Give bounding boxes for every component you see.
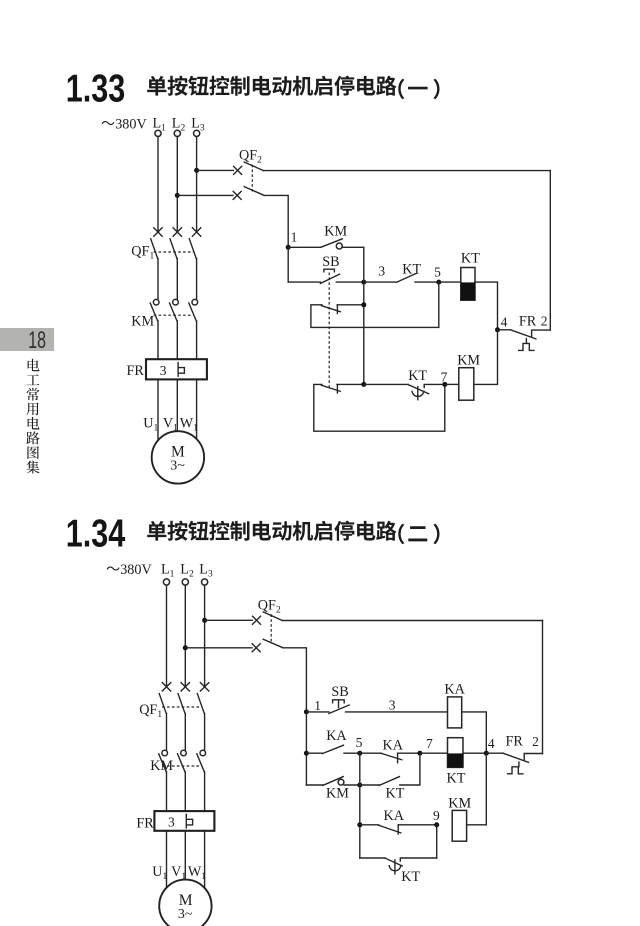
svg-text:1: 1	[291, 230, 298, 245]
svg-text:KT: KT	[461, 251, 480, 267]
breaker QF1 pole 2 (2)	[178, 683, 190, 714]
svg-text:4: 4	[488, 736, 495, 751]
svg-text:5: 5	[434, 265, 441, 280]
wire node7 to KT coil (2)	[420, 752, 448, 754]
thermal relay FR heater symbol (2)	[186, 814, 192, 828]
node on L2 to QF2	[175, 193, 180, 198]
breaker QF2 upper pole	[234, 162, 264, 174]
contactor KM main contact 1	[150, 299, 159, 321]
svg-text:3: 3	[160, 363, 167, 378]
contactor KM linkage (2)	[162, 765, 200, 767]
thermal relay FR NC contact	[498, 330, 551, 351]
node row3 (2)	[357, 822, 362, 827]
breaker QF1 pole 2	[170, 228, 182, 259]
wire QF1 outputs down to KM (2)	[167, 713, 205, 750]
svg-text:4: 4	[501, 315, 508, 330]
svg-text:KM: KM	[324, 224, 347, 240]
wire KT coil to corner down to node4	[475, 282, 498, 330]
svg-text:KM: KM	[457, 353, 480, 369]
node 7 (2)	[417, 751, 422, 756]
wire KM coil to node4 riser (2)	[467, 753, 487, 825]
wire phase L2 down to QF1	[176, 137, 178, 232]
breaker QF1 pole 3	[189, 228, 201, 259]
svg-text:KM: KM	[131, 314, 154, 330]
wire KM coil to node4 riser	[474, 330, 498, 385]
breaker QF1 pole 3 (2)	[197, 683, 209, 714]
breaker QF1 pole 1 (2)	[159, 683, 171, 714]
terminal L3	[191, 116, 205, 137]
wire KM outputs down to FR	[158, 321, 197, 359]
relay KA NO contact row3 (2)	[360, 825, 437, 834]
time relay KT NO contact row2b (2)	[360, 753, 420, 785]
wire KT coil to node 4 (2)	[463, 752, 486, 754]
contactor KM linkage	[154, 314, 193, 316]
node on riser at middle contact	[361, 302, 366, 307]
bottom loop with KT delayed contact (2)	[360, 857, 385, 859]
svg-text:FR: FR	[127, 363, 145, 379]
node on L3 to QF2 (2)	[202, 618, 207, 623]
time relay KT delayed NC contact	[408, 384, 445, 399]
wire riser node A corner	[363, 247, 365, 384]
node 3	[361, 280, 366, 285]
wire phase L3 down to QF1	[196, 137, 198, 232]
wire QF2 top output to right rail (2)	[282, 620, 542, 622]
wire to SB	[288, 281, 320, 283]
svg-text:2: 2	[532, 734, 539, 749]
svg-text:KM: KM	[150, 758, 173, 774]
wire node1 down to SB row	[287, 247, 289, 282]
svg-text:KT: KT	[401, 869, 420, 885]
node 7	[442, 382, 447, 387]
wire right rail down to FR contact (2)	[542, 621, 544, 754]
svg-text:3~: 3~	[170, 459, 185, 474]
time relay KT NO contact	[364, 273, 439, 282]
contactor KM main contact 1 (2)	[159, 750, 168, 772]
pushbutton SB NO contact (2)	[306, 705, 447, 714]
wire KA coil to node4 riser (2)	[462, 712, 487, 753]
svg-text:FR: FR	[506, 734, 524, 750]
wire L2 to QF2 lower contact (2)	[185, 647, 252, 649]
wire node1 to KM aux	[288, 246, 321, 248]
thermal relay FR heater symbol	[178, 363, 184, 377]
svg-text:FR: FR	[519, 314, 537, 330]
svg-text:KT: KT	[447, 771, 466, 787]
terminal L1	[153, 116, 167, 137]
wire phase L1 down to QF1	[157, 137, 159, 232]
sidebar page-number box	[0, 327, 54, 354]
motor M circle	[152, 431, 204, 483]
svg-text:KM: KM	[448, 796, 471, 812]
breaker QF1 linkage (2)	[162, 706, 201, 708]
breaker QF2 linkage	[251, 165, 253, 192]
contactor KM auxiliary NO contact	[321, 239, 364, 249]
terminal L2	[172, 116, 186, 137]
node on L2 to QF2 (2)	[183, 645, 188, 650]
svg-text:18: 18	[28, 327, 46, 354]
SB middle NO contact left loop	[311, 282, 439, 327]
node 4	[495, 327, 500, 332]
node 5 (2)	[357, 751, 362, 756]
svg-text:KT: KT	[408, 368, 427, 384]
breaker QF1 pole 1	[151, 228, 163, 259]
wire L3 to QF2 upper contact (2)	[205, 619, 253, 621]
pushbutton SB cap (2)	[333, 700, 345, 708]
svg-text:3: 3	[168, 815, 175, 830]
svg-text:～380V: ～380V	[101, 117, 147, 133]
motor M circle (2)	[159, 880, 211, 926]
svg-text:KA: KA	[326, 728, 347, 744]
time relay KT coil (2)	[448, 738, 464, 768]
node row2 left (2)	[304, 751, 309, 756]
CJK title and sidebar glyphs	[26, 76, 439, 544]
time relay KT coil	[461, 268, 475, 301]
wire QF2 bottom output to node 1	[264, 195, 288, 247]
wire QF2 top output to right rail	[263, 170, 550, 172]
svg-text:KM: KM	[326, 786, 349, 802]
relay KA coil (2)	[448, 697, 462, 728]
contactor KM main contact 3 (2)	[197, 750, 206, 772]
breaker QF2 lower pole	[233, 187, 264, 200]
wire QF2 bottom output to node 1 (2)	[283, 648, 306, 712]
svg-text:1: 1	[314, 698, 321, 713]
SB bottom NO contact stubs	[314, 384, 445, 431]
svg-text:～380V: ～380V	[106, 562, 152, 578]
wire KM outputs down to FR (2)	[167, 772, 205, 811]
node row2b (2)	[357, 783, 362, 788]
contactor KM coil (2)	[452, 810, 466, 841]
terminal L2 (2)	[180, 562, 194, 586]
breaker QF2 lower pole (2)	[252, 639, 283, 652]
breaker QF2 linkage (2)	[270, 614, 272, 644]
svg-text:3: 3	[378, 263, 385, 278]
pushbutton SB NC blade	[320, 274, 363, 283]
terminal L3 (2)	[199, 562, 213, 586]
svg-text:3~: 3~	[178, 907, 193, 922]
pushbutton SB cap	[324, 269, 335, 272]
svg-text:KA: KA	[384, 808, 405, 824]
node on L3 to QF2	[194, 168, 199, 173]
thermal relay FR NC contact (2)	[486, 753, 542, 774]
node 1	[286, 245, 291, 250]
wire to KT delayed contact	[364, 383, 408, 385]
node 1 (2)	[304, 709, 309, 714]
contactor KM NO contact row2b (2)	[306, 777, 359, 786]
wire node7 to KM coil	[445, 383, 459, 385]
contactor KM coil	[459, 368, 474, 401]
node 4 (2)	[484, 751, 489, 756]
wire FR outputs to motor	[158, 379, 197, 441]
thermal relay FR box (2)	[154, 811, 214, 831]
SB middle NO contact blade	[322, 305, 341, 314]
svg-text:KT: KT	[386, 786, 405, 802]
wire node5 to KT coil	[439, 281, 461, 283]
node 5	[436, 280, 441, 285]
time relay KT delayed NC contact (2)	[385, 858, 437, 874]
svg-text:5: 5	[356, 735, 363, 750]
contactor KM main contact 2 (2)	[178, 750, 187, 772]
svg-text:7: 7	[426, 736, 433, 751]
svg-text:1.33: 1.33	[66, 67, 126, 110]
relay KA NO contact row2 (2)	[306, 745, 359, 753]
node on riser at bottom contact	[361, 382, 366, 387]
pushbutton SB linkage dashes	[328, 273, 330, 388]
wire phases down to QF1 (2)	[167, 585, 205, 687]
contactor KM main contact 3	[189, 299, 198, 321]
wire right rail down to FR contact	[549, 171, 551, 331]
wire bottom loop up to node 9 (2)	[436, 825, 438, 858]
svg-text:2: 2	[541, 314, 548, 329]
svg-text:KA: KA	[383, 738, 404, 754]
svg-text:9: 9	[433, 808, 440, 823]
wire left rail down (2)	[305, 712, 307, 785]
breaker QF2 upper pole (2)	[253, 612, 283, 624]
terminal L1 (2)	[161, 562, 175, 586]
svg-text:3: 3	[389, 698, 396, 713]
relay KA NC contact (2)	[360, 753, 420, 763]
svg-text:1.34: 1.34	[66, 512, 126, 555]
wire QF1 outputs down to KM	[158, 259, 197, 300]
svg-text:FR: FR	[136, 816, 154, 832]
thermal relay FR box	[146, 359, 207, 379]
wire L3 to QF2 upper contact	[197, 169, 234, 171]
svg-text:SB: SB	[322, 254, 339, 270]
breaker QF1 linkage	[154, 251, 194, 253]
wire L2 to QF2 lower contact	[177, 194, 233, 196]
node 9 (2)	[434, 822, 439, 827]
wire FR outputs to motor (2)	[167, 831, 205, 889]
SB bottom NO contact blade	[322, 385, 341, 393]
svg-text:SB: SB	[331, 684, 348, 700]
svg-text:KA: KA	[444, 682, 465, 698]
wire node5 riser down (2)	[359, 753, 361, 858]
contactor KM main contact 2	[170, 299, 179, 321]
